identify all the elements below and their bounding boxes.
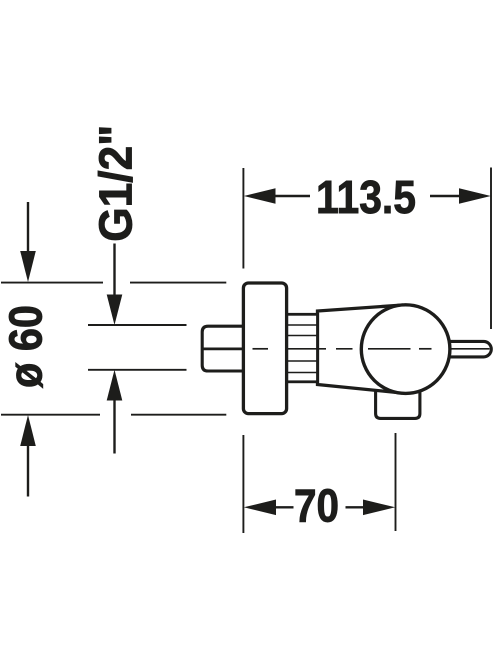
arrow 70 left [244, 500, 276, 516]
arrow left [244, 188, 276, 204]
dim 70 extension line right [395, 433, 397, 531]
handle stem pill [440, 341, 491, 357]
flange top projection line [1, 282, 103, 284]
nut bottom projection line [88, 369, 187, 371]
arrow right [459, 188, 491, 204]
wall flange [243, 283, 286, 414]
dim 113.5 extension line left [242, 168, 244, 269]
dia60 upper arrow [27, 202, 29, 252]
G12 lower arrow [107, 370, 123, 401]
body cone between thread and ball [318, 305, 404, 393]
svg-text:G1/2": G1/2" [90, 125, 142, 242]
threaded section [287, 314, 318, 382]
flange bottom projection line [1, 414, 100, 416]
svg-text:70: 70 [294, 480, 339, 532]
hex nut left [202, 326, 243, 371]
dim 70 extension line left [242, 435, 244, 533]
thread lines [288, 325, 317, 373]
ball body [361, 305, 450, 394]
center line dashes [253, 348, 490, 350]
nut middle line [203, 347, 243, 350]
G12 upper arrow [113, 244, 115, 295]
dim 113.5 extension line right [490, 168, 492, 330]
nut top projection line [88, 324, 187, 326]
dim 113.5 line right [430, 195, 460, 197]
arrow 70 right [363, 500, 395, 516]
dim 113.5 line left [276, 195, 311, 197]
bottom outlet [376, 378, 420, 418]
dim 70 line right [346, 506, 364, 508]
dim 70 line left [276, 506, 294, 508]
svg-text:113.5: 113.5 [316, 171, 416, 223]
svg-text:ø 60: ø 60 [0, 305, 52, 388]
dia60 lower arrow [20, 415, 36, 446]
